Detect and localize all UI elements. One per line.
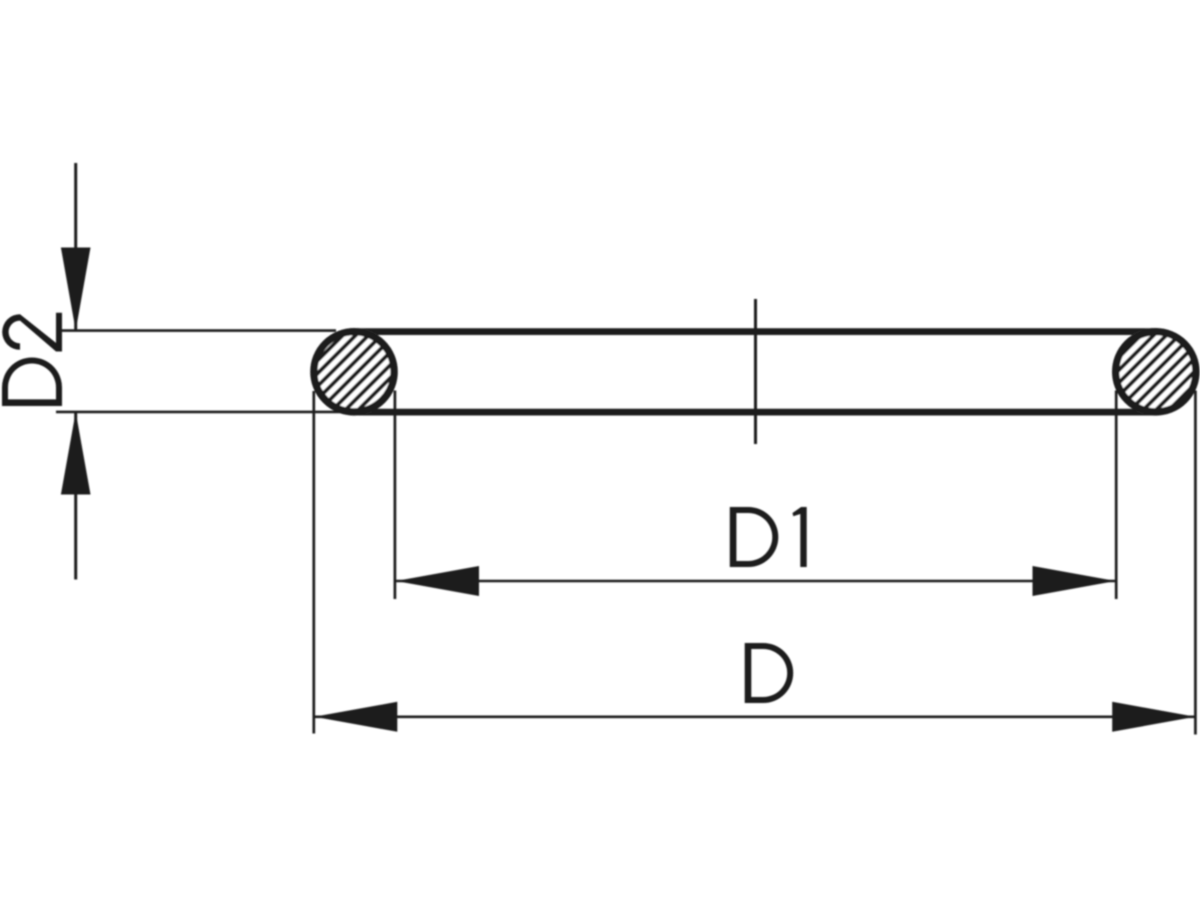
left cross-section hatching bbox=[202, 300, 481, 450]
D1 arrow left bbox=[396, 566, 479, 596]
D1 extension line left bbox=[394, 391, 397, 600]
left cross-section white fill bbox=[310, 328, 397, 415]
D extension line right bbox=[1194, 391, 1197, 735]
label D bbox=[745, 643, 794, 703]
D2 extension line top bbox=[57, 329, 336, 332]
D2 arrow upper bbox=[61, 248, 91, 331]
D2 arrow lower bbox=[61, 412, 91, 495]
wire o-ring top silhouette line bbox=[350, 328, 1158, 335]
wire o-ring bottom silhouette line bbox=[350, 409, 1158, 416]
D2 dimension line lower bbox=[74, 412, 77, 580]
D1 dimension line bbox=[396, 580, 1116, 583]
node center mark bbox=[754, 299, 757, 444]
right cross-section circle outline bbox=[1116, 332, 1196, 412]
D2 extension line bottom bbox=[56, 411, 346, 414]
D arrow left bbox=[314, 702, 397, 732]
D extension line left bbox=[312, 391, 315, 734]
label D1 bbox=[730, 507, 807, 567]
left cross-section circle outline bbox=[314, 332, 394, 412]
D dimension line bbox=[314, 715, 1195, 718]
D1 extension line right bbox=[1115, 391, 1118, 600]
right cross-section white fill bbox=[1112, 328, 1199, 415]
D2 dimension line upper bbox=[74, 163, 77, 330]
D1 arrow right bbox=[1033, 566, 1116, 596]
right cross-section hatching bbox=[1000, 300, 1200, 450]
D arrow right bbox=[1112, 702, 1195, 732]
label D2 (rotated) bbox=[2, 313, 62, 406]
